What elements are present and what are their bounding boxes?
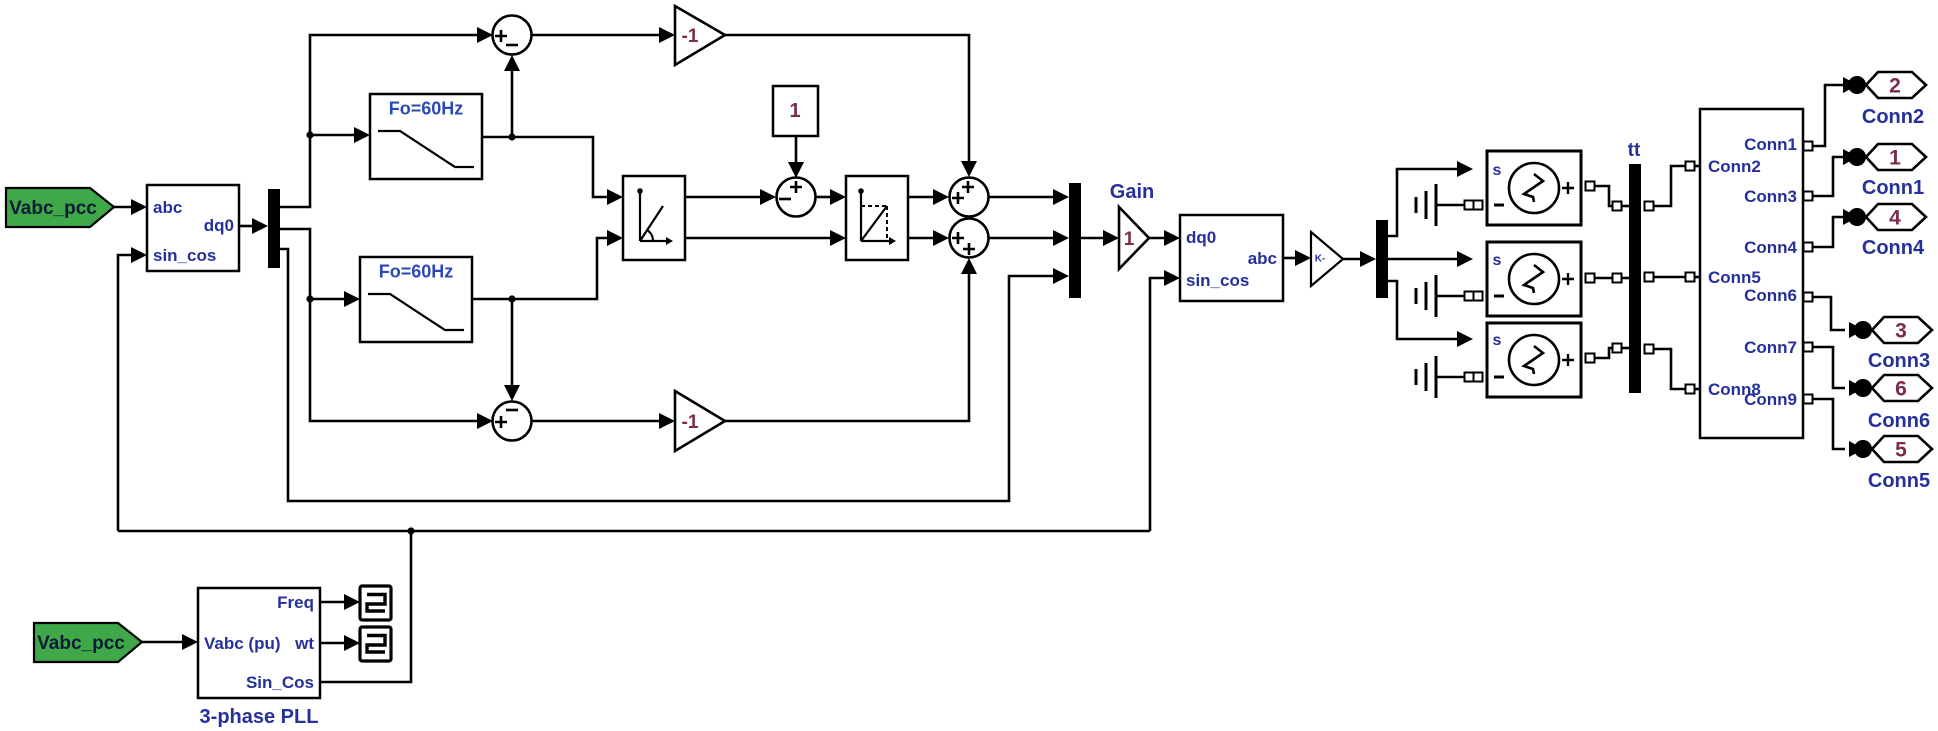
sum block S5 (- +) middle <box>777 178 816 217</box>
wire tag2 to PLL input <box>142 641 184 644</box>
abc to dq0 transform block U1 <box>147 185 239 271</box>
svg-text:Conn3: Conn3 <box>1868 350 1930 372</box>
wire M1 output to Gain <box>1081 237 1105 240</box>
svg-text:Sin_Cos: Sin_Cos <box>246 673 314 692</box>
svg-text:sin_cos: sin_cos <box>153 246 216 265</box>
wire -1 top output to sum S3 top input <box>724 35 969 162</box>
svg-text:Conn6: Conn6 <box>1868 410 1930 432</box>
svg-text:Fo=60Hz: Fo=60Hz <box>379 261 454 281</box>
gain block Gain value 1 <box>1110 181 1154 269</box>
gain -1 (top) <box>675 6 725 65</box>
wire V2 plus to tt bus <box>1586 274 1595 283</box>
svg-text:3-phase PLL: 3-phase PLL <box>200 706 319 728</box>
wire Fo bottom output to polar block input2 <box>473 238 609 299</box>
wire tag1 to abc input <box>114 206 133 209</box>
svg-text:sin_cos: sin_cos <box>1186 271 1249 290</box>
wire U1 dq0 output to demux D1 <box>239 225 254 228</box>
wire sin_cos feedback bus horizontal <box>118 530 1150 533</box>
mux M1 <box>1069 183 1081 298</box>
wire tt bus to Conn8 <box>1645 345 1654 354</box>
wire PLL Freq to scope 1 <box>320 601 346 604</box>
3-phase PLL block <box>198 588 320 728</box>
wire Conn1 to tag 2 <box>1804 142 1813 151</box>
svg-text:Conn7: Conn7 <box>1744 338 1797 357</box>
wire Conn3 to tag 1 <box>1804 192 1813 201</box>
controlled voltage source V1 <box>1487 151 1581 225</box>
connection tag 6 / Conn6 <box>1849 375 1932 432</box>
input tag Vabc_pcc (top) <box>6 188 114 227</box>
svg-text:abc: abc <box>1248 249 1277 268</box>
wire tap to Fo top filter <box>310 134 356 137</box>
connection tag 1 / Conn1 <box>1843 144 1926 199</box>
wire Fo top output to polar block input1 <box>482 137 609 197</box>
wire tap to Fo bottom filter <box>310 298 346 301</box>
wire tt bus to Conn2 <box>1645 202 1654 211</box>
wire junction down to bottom sum minus input <box>511 299 514 386</box>
wire Conn4 to tag 4 <box>1804 243 1813 252</box>
wire S4 output to mux M1 input2 <box>989 237 1055 240</box>
sum block S2 (+ -) bottom <box>493 402 532 441</box>
svg-text:dq0: dq0 <box>204 216 234 235</box>
ground G2 (rotated) <box>1416 275 1483 317</box>
svg-text:Freq: Freq <box>277 593 314 612</box>
gain -1 (bottom) <box>675 391 725 451</box>
wire Gain output to dq0-abc block <box>1149 237 1166 240</box>
svg-text:-1: -1 <box>682 26 699 47</box>
svg-text:Gain: Gain <box>1110 181 1154 203</box>
junction node q-filter tap <box>306 295 313 302</box>
svg-text:-1: -1 <box>682 412 699 433</box>
svg-text:Vabc_pcc: Vabc_pcc <box>9 198 97 219</box>
svg-text:Conn4: Conn4 <box>1744 238 1797 257</box>
svg-text:Fo=60Hz: Fo=60Hz <box>389 98 464 118</box>
svg-text:Conn3: Conn3 <box>1744 187 1797 206</box>
junction node sin_cos feedback <box>407 527 414 534</box>
connection tag 5 / Conn5 <box>1849 436 1932 492</box>
demux D2 <box>1376 220 1388 298</box>
junction node bottom filter output <box>508 295 515 302</box>
sum block S1 (+ -) top <box>493 16 532 55</box>
wire Conn7 to tag 6 <box>1804 343 1813 352</box>
low-pass filter block Fo=60Hz (bottom) <box>360 257 472 342</box>
cartesian to polar block U2 <box>623 176 685 260</box>
gain block K <box>1311 232 1343 286</box>
connection tag 4 / Conn4 <box>1843 204 1926 259</box>
wire junction up to top sum minus input <box>511 70 514 137</box>
polar to cartesian block U3 <box>846 176 908 260</box>
wire S1 output to -1 gain top <box>532 34 659 37</box>
junction node top filter output <box>508 133 515 140</box>
sum block S3 (+ +) upper <box>950 178 989 217</box>
wire D1 out3 bypass to mux M1 input3 <box>280 249 1055 501</box>
wire D2 out2 to source V2 s input <box>1388 258 1458 261</box>
svg-text:Conn5: Conn5 <box>1708 268 1761 287</box>
sum block S4 (+ +) lower <box>950 219 989 258</box>
wire S5 output to polar-to-cart input1 <box>816 196 832 199</box>
svg-text:abc: abc <box>153 198 182 217</box>
wire Conn6 to tag 3 <box>1804 293 1813 302</box>
svg-text:1: 1 <box>789 100 800 122</box>
wire U3 output2 to sum S4 <box>908 237 935 240</box>
svg-text:Conn1: Conn1 <box>1744 135 1797 154</box>
controlled voltage source V2 <box>1487 242 1581 316</box>
wire gain K output to demux D2 <box>1343 258 1362 261</box>
wire D1 out1 up to top sum <box>280 35 479 207</box>
wire Conn9 to tag 5 <box>1804 395 1813 404</box>
dq0 to abc transform block U4 <box>1180 215 1283 301</box>
svg-text:Conn6: Conn6 <box>1744 286 1797 305</box>
svg-text:Conn4: Conn4 <box>1862 237 1925 259</box>
svg-text:s: s <box>1493 252 1502 269</box>
wire U2 output1 to sum S5 <box>685 196 762 199</box>
svg-text:K-: K- <box>1315 254 1326 265</box>
scope block (Freq) <box>360 586 391 620</box>
constant block value 1 <box>773 86 818 136</box>
svg-text:6: 6 <box>1895 378 1907 401</box>
svg-text:Conn5: Conn5 <box>1868 470 1930 492</box>
svg-text:Vabc (pu): Vabc (pu) <box>204 634 281 653</box>
wire V1 plus to tt bus <box>1586 182 1595 191</box>
low-pass filter block Fo=60Hz (top) <box>370 94 482 179</box>
connection tag 2 / Conn2 <box>1843 72 1926 128</box>
demux D1 <box>268 189 280 268</box>
svg-text:2: 2 <box>1889 75 1901 98</box>
svg-text:Conn1: Conn1 <box>1862 177 1924 199</box>
svg-text:tt: tt <box>1628 140 1641 161</box>
scope block (wt) <box>360 627 391 661</box>
subsystem block Conn1..Conn9 <box>1700 109 1803 438</box>
wire PLL wt to scope 2 <box>320 642 346 645</box>
ground G3 (rotated) <box>1416 356 1483 398</box>
wire V3 plus to tt bus <box>1586 354 1595 363</box>
svg-text:Conn2: Conn2 <box>1862 106 1924 128</box>
ground G1 (rotated) <box>1416 184 1483 226</box>
svg-text:Conn9: Conn9 <box>1744 390 1797 409</box>
svg-text:4: 4 <box>1889 207 1901 230</box>
svg-text:Conn2: Conn2 <box>1708 157 1761 176</box>
svg-text:1: 1 <box>1124 229 1135 250</box>
svg-text:1: 1 <box>1889 147 1901 170</box>
controlled voltage source V3 <box>1487 323 1581 397</box>
connection tag 3 / Conn3 <box>1849 317 1932 372</box>
wire PLL Sin_Cos to feedback bus <box>320 531 411 682</box>
svg-text:Vabc_pcc: Vabc_pcc <box>37 633 125 654</box>
wire sin_cos feedback to U4 <box>1150 278 1166 531</box>
wire U4 abc output to gain K <box>1283 257 1297 260</box>
svg-text:s: s <box>1493 162 1502 179</box>
wire D2 out1 to source V1 s input <box>1388 169 1458 236</box>
svg-text:3: 3 <box>1895 320 1907 343</box>
bus bar tt <box>1628 140 1641 393</box>
wire U2 output2 to polar-to-cart input2 <box>685 237 832 240</box>
svg-text:dq0: dq0 <box>1186 228 1216 247</box>
wire U3 output1 to sum S3 <box>908 196 935 199</box>
wire D2 out3 to source V3 s input <box>1388 281 1458 339</box>
svg-text:s: s <box>1493 332 1502 349</box>
svg-text:5: 5 <box>1895 439 1907 462</box>
wire S3 output to mux M1 input1 <box>989 196 1055 199</box>
wire D1 out2 down to bottom sum <box>280 229 479 421</box>
input tag Vabc_pcc (bottom) <box>34 623 142 662</box>
wire S2 output to -1 gain bottom <box>532 420 659 423</box>
junction node d-filter tap <box>306 131 313 138</box>
wire constant to sum S5 plus input <box>795 136 798 163</box>
svg-text:wt: wt <box>294 634 314 653</box>
wire tt bus to Conn5 <box>1645 273 1654 282</box>
wire sin_cos feedback to U1 <box>118 255 133 531</box>
wire -1 bottom output to sum S4 bottom input <box>724 273 969 421</box>
